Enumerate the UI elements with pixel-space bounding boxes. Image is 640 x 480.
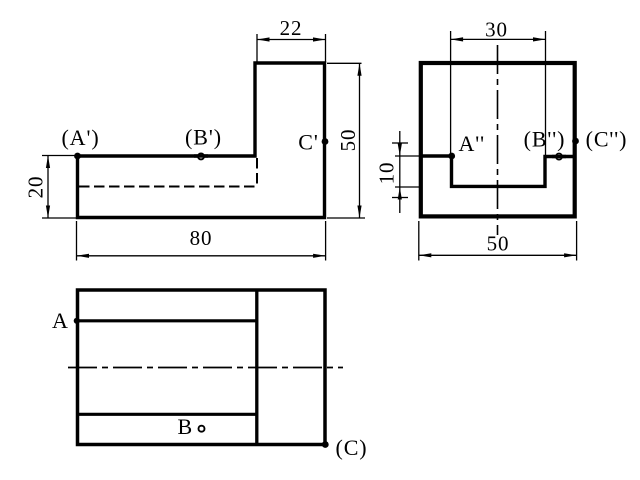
svg-text:(C''): (C''): [586, 127, 628, 152]
svg-text:10: 10: [375, 162, 399, 185]
svg-text:B: B: [178, 414, 194, 439]
svg-text:(B''): (B''): [524, 127, 566, 152]
svg-text:A'': A'': [459, 131, 486, 156]
svg-text:20: 20: [24, 176, 48, 199]
svg-text:50: 50: [336, 129, 360, 152]
svg-text:A: A: [52, 308, 69, 333]
svg-text:C': C': [298, 130, 318, 155]
svg-text:(B'): (B'): [185, 125, 222, 150]
svg-text:30: 30: [485, 18, 508, 42]
svg-text:(A'): (A'): [61, 125, 99, 150]
svg-text:22: 22: [280, 16, 303, 40]
svg-text:80: 80: [190, 226, 213, 250]
svg-text:(C): (C): [335, 435, 367, 460]
svg-text:50: 50: [487, 232, 510, 256]
